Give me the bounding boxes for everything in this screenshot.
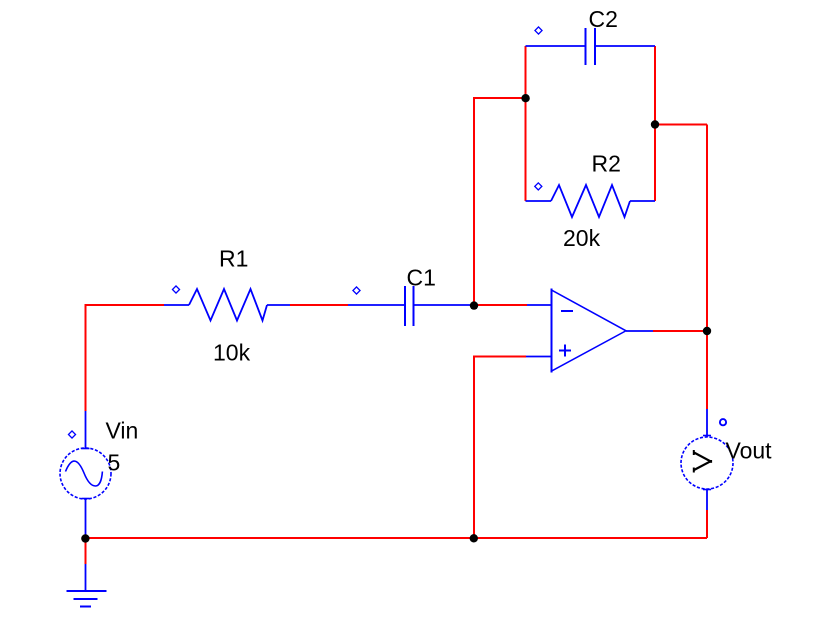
source Vin: [60, 411, 111, 535]
wire Vin lower to ground: [85, 538, 87, 564]
wire input left L (Vin top to R1): [86, 305, 165, 411]
svg-text:R1: R1: [219, 246, 248, 272]
Vin lead below rail: [85, 564, 87, 591]
svg-text:Vout: Vout: [726, 438, 773, 464]
resistor R2: [526, 185, 656, 217]
pin marker Vin: [68, 431, 75, 438]
svg-text:20k: 20k: [563, 225, 601, 251]
wire right feedback branch vertical: [654, 46, 656, 201]
wire output column vertical: [706, 125, 708, 410]
wire C1 node to op-amp minus: [474, 304, 527, 306]
junction minus node: [470, 301, 478, 309]
wire op-amp output to node: [653, 330, 707, 332]
junction output node: [703, 327, 711, 335]
ground: [67, 591, 107, 607]
svg-text:Vin: Vin: [106, 418, 139, 444]
pin marker R2: [535, 183, 542, 190]
svg-text:10k: 10k: [213, 340, 251, 366]
svg-text:R2: R2: [592, 151, 621, 177]
wire R1 to C1: [290, 304, 348, 306]
wire voltmeter bottom: [706, 510, 708, 538]
pin marker C1: [353, 287, 360, 294]
junction feedback right: [651, 120, 659, 128]
junction rail middle: [470, 534, 478, 542]
wire bottom rail: [86, 537, 708, 539]
junction feedback left: [521, 94, 529, 102]
op-amp U1: [526, 289, 653, 373]
svg-text:C2: C2: [589, 6, 618, 32]
resistor R1: [164, 289, 290, 321]
wire feedback riser from minus node: [474, 98, 526, 305]
pin marker C2: [535, 27, 542, 34]
svg-text:C1: C1: [407, 265, 436, 291]
voltmeter Vout: [681, 409, 733, 510]
pin marker Vout: [720, 419, 726, 425]
junction rail left: [81, 534, 89, 542]
capacitor C1: [348, 286, 474, 326]
wire plus input from ground rail: [474, 357, 526, 539]
wire left feedback branch vertical: [525, 46, 527, 201]
pin marker R1: [172, 286, 179, 293]
wire feedback to output column: [655, 124, 707, 126]
capacitor C2: [526, 28, 656, 65]
svg-text:5: 5: [108, 450, 121, 476]
